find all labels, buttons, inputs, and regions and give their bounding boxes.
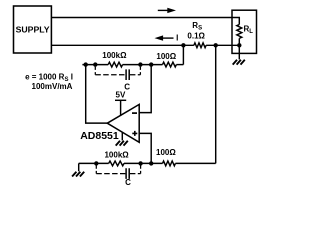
- svg-text:C: C: [124, 82, 130, 91]
- svg-text:100mV/mA: 100mV/mA: [32, 82, 73, 91]
- svg-text:C: C: [125, 178, 131, 187]
- svg-text:RS: RS: [192, 21, 202, 32]
- svg-text:RL: RL: [244, 25, 254, 36]
- svg-text:I: I: [176, 33, 178, 42]
- svg-text:AD8551: AD8551: [80, 130, 119, 142]
- svg-text:5V: 5V: [116, 91, 126, 100]
- svg-text:SUPPLY: SUPPLY: [16, 24, 50, 34]
- svg-text:100Ω: 100Ω: [156, 52, 176, 61]
- svg-text:100kΩ: 100kΩ: [102, 51, 127, 60]
- svg-text:100Ω: 100Ω: [156, 148, 176, 157]
- svg-text:100kΩ: 100kΩ: [104, 151, 129, 160]
- svg-text:0.1Ω: 0.1Ω: [187, 32, 205, 41]
